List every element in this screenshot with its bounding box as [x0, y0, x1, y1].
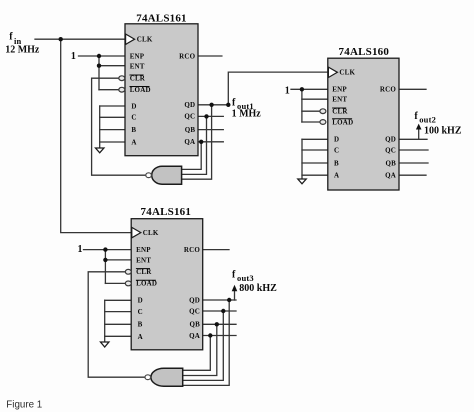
svg-text:QA: QA: [189, 332, 200, 340]
svg-text:LOAD: LOAD: [136, 280, 157, 288]
svg-text:12 MHz: 12 MHz: [5, 44, 40, 55]
svg-text:QD: QD: [189, 296, 200, 304]
svg-text:QC: QC: [385, 146, 396, 154]
svg-text:QD: QD: [184, 101, 195, 109]
svg-text:D: D: [334, 136, 339, 144]
svg-text:100 kHZ: 100 kHZ: [424, 125, 462, 136]
svg-text:B: B: [138, 321, 143, 329]
svg-text:RCO: RCO: [380, 86, 397, 94]
svg-text:74ALS160: 74ALS160: [339, 46, 390, 58]
svg-text:QD: QD: [385, 136, 396, 144]
svg-text:CLK: CLK: [339, 69, 355, 77]
svg-text:Figure 1: Figure 1: [6, 399, 42, 410]
svg-text:QB: QB: [385, 159, 396, 167]
svg-text:B: B: [131, 126, 136, 134]
svg-text:ENT: ENT: [332, 96, 347, 104]
svg-text:QA: QA: [385, 172, 396, 180]
svg-text:ENT: ENT: [136, 256, 151, 264]
svg-text:1 MHz: 1 MHz: [232, 108, 262, 119]
svg-text:1: 1: [285, 85, 290, 96]
svg-text:LOAD: LOAD: [332, 118, 353, 126]
svg-text:A: A: [334, 172, 339, 180]
svg-text:LOAD: LOAD: [130, 86, 151, 94]
svg-text:CLR: CLR: [332, 108, 348, 116]
svg-text:RCO: RCO: [179, 53, 196, 61]
svg-text:B: B: [334, 159, 339, 167]
svg-text:QC: QC: [189, 307, 200, 315]
svg-text:C: C: [138, 308, 143, 316]
svg-text:ENP: ENP: [136, 246, 151, 254]
svg-text:CLK: CLK: [137, 36, 153, 44]
svg-text:ENT: ENT: [130, 62, 145, 70]
svg-text:out3: out3: [237, 273, 254, 283]
svg-text:QB: QB: [189, 321, 200, 329]
svg-text:CLK: CLK: [143, 229, 159, 237]
svg-text:CLR: CLR: [136, 268, 152, 276]
svg-text:RCO: RCO: [184, 246, 201, 254]
svg-text:1: 1: [78, 244, 83, 255]
svg-text:ENP: ENP: [130, 53, 145, 61]
svg-text:C: C: [131, 114, 136, 122]
svg-text:CLR: CLR: [130, 75, 146, 83]
svg-text:out2: out2: [419, 115, 436, 125]
svg-text:C: C: [334, 146, 339, 154]
svg-text:74ALS161: 74ALS161: [136, 13, 187, 25]
svg-text:QC: QC: [184, 113, 195, 121]
svg-text:1: 1: [71, 51, 76, 62]
svg-text:74ALS161: 74ALS161: [141, 206, 192, 218]
svg-text:D: D: [131, 102, 136, 110]
svg-text:QA: QA: [184, 138, 195, 146]
svg-text:ENP: ENP: [332, 86, 347, 94]
svg-text:800 kHZ: 800 kHZ: [239, 283, 277, 294]
svg-text:QB: QB: [185, 126, 196, 134]
svg-text:A: A: [138, 333, 143, 341]
svg-text:D: D: [138, 297, 143, 305]
svg-text:A: A: [131, 138, 136, 146]
